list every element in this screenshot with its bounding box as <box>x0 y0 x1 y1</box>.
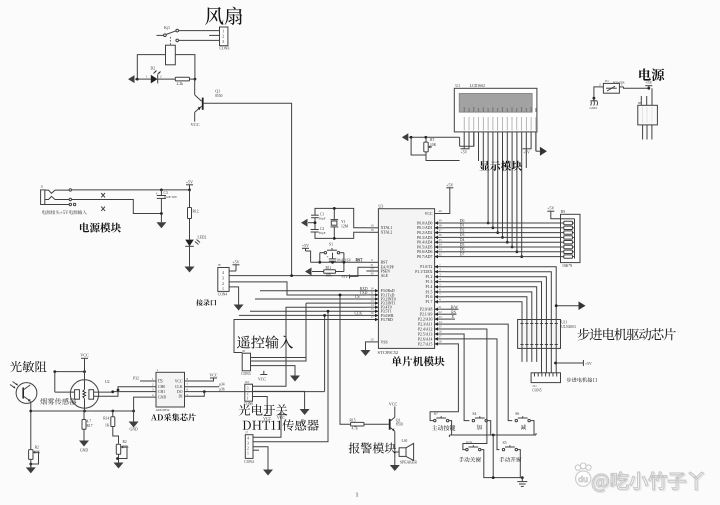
svg-text:LCD1602: LCD1602 <box>470 84 485 88</box>
ground under R17 <box>79 438 89 453</box>
label CON3 (remote) <box>241 372 251 376</box>
fuse P1 POWER <box>598 79 625 93</box>
svg-text:Q1: Q1 <box>215 89 220 94</box>
resistor R11 10K <box>324 266 336 278</box>
power label +5V (power module) <box>186 179 193 190</box>
svg-text:P1.1/T2EX: P1.1/T2EX <box>415 270 432 274</box>
svg-text:U3: U3 <box>378 203 383 208</box>
wire P2.4 to S10 <box>446 329 487 450</box>
wire sensor left pin <box>55 372 75 393</box>
svg-text:S5: S5 <box>503 441 507 445</box>
svg-text:1: 1 <box>247 396 249 400</box>
svg-text:P1.6: P1.6 <box>426 295 433 299</box>
module label 单片机模块 <box>392 356 445 366</box>
connector J6 remote <box>242 349 250 371</box>
net label RST <box>356 258 364 262</box>
power label +5V at reset <box>302 243 311 262</box>
connector CON3 (fan) <box>220 27 228 46</box>
wire LCD RS wire down <box>459 137 461 146</box>
label 10uF/16V RST <box>337 258 364 262</box>
phototransistor Q3 <box>10 382 37 404</box>
wire P3.0 RXD <box>260 290 366 292</box>
svg-text:3: 3 <box>247 386 249 390</box>
label J11 CON5 <box>532 384 542 392</box>
wire Q1 base to MCU <box>204 103 292 275</box>
svg-text:p36: p36 <box>219 387 225 391</box>
svg-text:P0.4/AD4: P0.4/AD4 <box>417 241 432 245</box>
svg-text:J11: J11 <box>532 384 537 388</box>
svg-text:P0.0/AD0: P0.0/AD0 <box>417 221 432 225</box>
svg-text:2: 2 <box>599 82 601 86</box>
svg-text:+5V: +5V <box>585 362 592 366</box>
relay coil K1 <box>166 45 176 65</box>
resistor R15 4.7k <box>350 418 365 430</box>
svg-text:GND: GND <box>80 449 88 453</box>
svg-text:DO: DO <box>177 390 183 394</box>
svg-text:P2.0/A8: P2.0/A8 <box>420 308 433 312</box>
diode D2 label <box>151 66 161 74</box>
svg-text:R/W: R/W <box>451 305 459 309</box>
svg-text:2.2k: 2.2k <box>177 82 184 86</box>
svg-text:P1.0/T2: P1.0/T2 <box>420 265 432 269</box>
power labels VCC VCC <box>263 411 285 421</box>
wire DHT11 pin4 to VCC <box>253 415 281 438</box>
svg-text:D1: D1 <box>460 224 465 228</box>
svg-text:37: 37 <box>438 228 442 232</box>
resistor pack R9 body <box>561 210 581 263</box>
label STC89C52 <box>378 350 399 355</box>
relay switch Kj1 label <box>164 25 170 30</box>
CON5 pin ticks <box>535 373 557 377</box>
wire J8 pin2 to MCU P3.1 <box>229 282 366 297</box>
wire RST row <box>311 261 367 264</box>
wire R12 to LED2 <box>189 219 191 240</box>
wire relay to CON3 pin1 <box>178 30 219 32</box>
connector J7 DHT11 <box>245 431 253 459</box>
svg-text:VCC: VCC <box>389 401 398 406</box>
resistor R17 4.7 <box>82 411 93 438</box>
svg-text:CON3: CON3 <box>220 47 230 51</box>
svg-text:3: 3 <box>247 442 249 446</box>
resistor R14 1K <box>103 411 115 428</box>
svg-text:4.7: 4.7 <box>87 420 92 424</box>
svg-text:CON3: CON3 <box>241 372 251 376</box>
svg-text:VCC: VCC <box>263 416 272 421</box>
svg-text:30pF: 30pF <box>319 231 326 235</box>
svg-text:28: 28 <box>438 340 442 344</box>
svg-text:4.7k: 4.7k <box>352 427 358 431</box>
svg-text:22: 22 <box>438 310 442 314</box>
capacitor C1 30pF <box>311 213 325 223</box>
svg-text:CS: CS <box>158 379 163 383</box>
power label +5V at EA <box>341 267 366 279</box>
ground (left arrow) at relay <box>128 75 137 83</box>
junction dot at photo wire <box>29 410 32 413</box>
power label VCC at Q1 emitter <box>191 122 200 127</box>
svg-text:17: 17 <box>370 315 374 319</box>
svg-text:P1.4: P1.4 <box>426 285 433 289</box>
svg-text:10uF/16V: 10uF/16V <box>164 195 178 199</box>
label CON4 (DHT11) <box>244 460 254 464</box>
driver chip U11 ULN2003 body <box>518 320 561 349</box>
ground (left) at R11 <box>305 268 324 276</box>
svg-text:20: 20 <box>370 338 374 342</box>
LCD pins short wires <box>464 132 536 169</box>
power label VCC under J6 <box>258 371 267 382</box>
svg-text:P2.2/A10: P2.2/A10 <box>418 318 433 322</box>
ULN2003 through pins <box>520 320 557 349</box>
power label +5V at J8 <box>229 259 240 271</box>
ADC pin names <box>158 379 183 399</box>
svg-text:10K: 10K <box>430 143 437 147</box>
svg-text:PSEN: PSEN <box>381 269 391 273</box>
svg-text:21: 21 <box>438 305 442 309</box>
svg-text:27: 27 <box>438 335 442 339</box>
svg-text:ADC0832: ADC0832 <box>156 408 170 412</box>
module label 报警模块 <box>349 443 396 454</box>
wire P0 data bus to resistor pack <box>446 223 561 257</box>
wire P3.2 CS <box>255 298 366 300</box>
ground under J6 wire <box>290 371 300 382</box>
svg-text:D5: D5 <box>460 243 465 247</box>
no-connect X marks <box>101 193 105 211</box>
wire Q2 emitter to speaker <box>395 431 399 458</box>
power jack J2 <box>41 185 76 206</box>
wire P2.5 to S4 <box>446 334 469 421</box>
label 手动开窗 <box>499 457 521 462</box>
svg-text:STC89C52: STC89C52 <box>378 350 399 355</box>
svg-text:U1: U1 <box>455 84 460 88</box>
svg-text:35: 35 <box>438 238 442 242</box>
capacitor C4 10uF/16V (reset) <box>327 253 337 263</box>
net labels RXD TXD CS CLK <box>355 287 368 316</box>
svg-text:RST: RST <box>381 261 389 265</box>
ground under alarm Q2 <box>390 458 400 471</box>
label 手动关窗 <box>458 457 480 462</box>
module label 步进电机驱动芯片 <box>578 328 676 340</box>
ground under ADC <box>129 418 139 432</box>
svg-text:D0: D0 <box>460 219 465 223</box>
capacitor C2 30pF <box>311 223 326 235</box>
wire P3.6 CLK to ADC <box>239 314 366 391</box>
wire LCD V0 to contrast pot <box>460 132 474 147</box>
power label +5V (top right) <box>645 80 652 88</box>
power +5V at LCD pin15 <box>523 149 532 155</box>
svg-text:+: + <box>327 255 329 259</box>
ground under J8 <box>234 301 244 311</box>
svg-text:P2.1/A9: P2.1/A9 <box>420 313 433 317</box>
wire P1 pin2 to GND <box>593 87 599 101</box>
svg-text:3: 3 <box>222 276 224 281</box>
module label 光敏阻 <box>10 361 47 372</box>
svg-text:D2: D2 <box>460 228 465 232</box>
wire DHT11 pin1 stub <box>253 449 259 451</box>
wire J6 pin2 to ground <box>251 366 296 371</box>
svg-text:D7: D7 <box>460 252 465 256</box>
ground under J10 wire <box>300 403 310 415</box>
diode D2 <box>137 75 175 84</box>
svg-text:P0.7/AD7: P0.7/AD7 <box>417 255 432 259</box>
wire sensor row <box>31 410 135 413</box>
transistor Q1 labels <box>215 89 222 98</box>
svg-text:32: 32 <box>438 252 442 256</box>
svg-text:U11: U11 <box>561 321 567 325</box>
resistor R (2.2k) <box>175 77 189 86</box>
wire crystal loop <box>315 207 366 240</box>
svg-text:S10: S10 <box>466 441 472 445</box>
svg-text:34: 34 <box>438 243 442 247</box>
svg-text:ULN2003: ULN2003 <box>561 325 576 329</box>
svg-text:VCC: VCC <box>209 372 218 377</box>
MCU left pins XTAL1 XTAL2 RST EA PSEN ALE P3.0-P3.7 VSS <box>366 224 395 345</box>
wire DHT11 pin2 to ground <box>253 447 268 461</box>
svg-text:CON4: CON4 <box>218 292 228 296</box>
svg-text:23: 23 <box>438 315 442 319</box>
svg-text:25: 25 <box>438 325 442 329</box>
module label 烟雾传感器 <box>40 398 76 405</box>
wire phototransistor collector rail <box>53 370 86 373</box>
svg-text:P0.2/AD2: P0.2/AD2 <box>417 231 432 235</box>
svg-text:R15: R15 <box>350 418 356 422</box>
svg-text:CH1: CH1 <box>158 390 165 394</box>
svg-text:P0.1/AD1: P0.1/AD1 <box>417 226 432 230</box>
regulator leads <box>641 88 652 139</box>
svg-text:GND: GND <box>590 106 598 110</box>
wire sensor right pins to ADC <box>94 387 156 397</box>
connector J10 photoelectric <box>245 380 253 401</box>
svg-text:1: 1 <box>247 452 249 456</box>
ground under DHT11 <box>263 461 273 476</box>
svg-text:18: 18 <box>370 228 374 232</box>
ground under C3 <box>156 212 166 228</box>
junction dot +5V rail <box>188 189 191 192</box>
resistor pack R9 resistors 10K*8 <box>561 219 575 259</box>
wire phototransistor emitter down <box>30 401 32 449</box>
crystal Y1 12M <box>331 220 349 229</box>
LCD pin name ticks <box>464 107 536 131</box>
power label VCC at alarm <box>389 401 398 417</box>
module label 光电开关 <box>239 404 288 415</box>
svg-text:R12: R12 <box>193 210 199 214</box>
svg-text:VSS: VSS <box>381 340 388 344</box>
wire P1.0-P1.7 to ULN2003 inputs <box>446 267 556 320</box>
svg-text:40: 40 <box>438 209 442 213</box>
svg-text:R2: R2 <box>123 440 127 444</box>
watermark text @吃小竹子丫 <box>592 472 704 493</box>
wire P2.3 to S6 <box>446 324 512 421</box>
svg-text:4: 4 <box>222 270 224 275</box>
label U2 <box>105 380 110 384</box>
svg-text:R14: R14 <box>103 416 109 420</box>
smoke sensor MQ2 <box>70 380 98 411</box>
LCD screen <box>459 94 532 113</box>
svg-text:LED2: LED2 <box>198 236 207 240</box>
svg-text:Y1: Y1 <box>341 220 346 224</box>
svg-text:1: 1 <box>355 492 358 499</box>
svg-text:33: 33 <box>438 248 442 252</box>
wire jack to +5V rail <box>72 189 190 191</box>
wire ADC DO to P3.6 <box>185 387 325 393</box>
svg-text:R9: R9 <box>561 210 565 214</box>
svg-text:U2: U2 <box>105 380 110 384</box>
svg-text:4: 4 <box>247 437 249 441</box>
ground under LED2 <box>185 265 195 272</box>
svg-text:3: 3 <box>222 39 224 44</box>
svg-text:+5V: +5V <box>461 151 468 155</box>
svg-text:+5V: +5V <box>547 206 554 211</box>
module label 电源模块 <box>80 223 121 233</box>
wire CON3 pin2 stub <box>209 34 219 36</box>
trimmer R2 (ADC) <box>113 427 129 461</box>
wire J10 pin2 to ground <box>253 391 305 403</box>
switch S6 <box>515 412 530 422</box>
relay switch Kj1 contacts <box>157 29 179 45</box>
wire P3.3 to J10 connector <box>251 303 367 361</box>
svg-text:1: 1 <box>621 82 623 86</box>
svg-text:1K: 1K <box>105 424 110 428</box>
module label DHT11传感器 <box>243 419 319 431</box>
svg-text:P0.3/AD3: P0.3/AD3 <box>417 236 432 240</box>
wire pot bottom <box>421 152 460 161</box>
wires ULN outputs <box>522 348 556 372</box>
connector J8 接录口 <box>218 263 229 291</box>
svg-text:P2.7/A15: P2.7/A15 <box>418 342 433 346</box>
svg-text:30: 30 <box>370 271 374 275</box>
wire ULN COM to arrow <box>555 301 586 310</box>
svg-text:P2.5/A13: P2.5/A13 <box>418 332 433 336</box>
svg-text:12M: 12M <box>341 225 349 229</box>
label ADC0832 <box>156 408 170 412</box>
svg-text:19: 19 <box>370 224 374 228</box>
svg-text:CLK: CLK <box>175 385 183 389</box>
module label 显示模块 <box>479 161 522 171</box>
wire R15 to Q2 base <box>364 423 389 425</box>
wire P3.1 to alarm <box>339 294 351 425</box>
ground under R2 (ADC) <box>114 459 124 469</box>
module label AD采集芯片 <box>151 413 196 421</box>
regulator U5 body <box>638 101 658 125</box>
wire DHT11 data to P3.5 <box>253 310 329 442</box>
switch S10 <box>466 441 481 451</box>
svg-text:S4: S4 <box>472 412 476 416</box>
capacitor C3 10uF/16V <box>156 190 178 214</box>
watermark paw icon <box>575 463 591 486</box>
switch S1 (reset) <box>320 243 344 263</box>
wire J6 pin to P3 bundle <box>251 357 307 359</box>
svg-text:P2.3/A11: P2.3/A11 <box>418 323 432 327</box>
wire pot top rail <box>409 136 460 139</box>
svg-text:P0.6/AD6: P0.6/AD6 <box>417 250 432 254</box>
wire P3.7 to remote <box>234 320 366 353</box>
svg-text:+5V: +5V <box>341 274 348 279</box>
ground (left) at crystal caps <box>301 219 316 227</box>
svg-text:p34: p34 <box>219 383 225 387</box>
svg-text:ALE: ALE <box>381 274 389 278</box>
ground at MCU VSS <box>361 342 371 356</box>
svg-text:10K*8: 10K*8 <box>562 264 572 268</box>
label CON3 <box>220 47 230 51</box>
svg-text:2: 2 <box>247 447 249 451</box>
wire ADC CLK net p34 <box>185 383 225 387</box>
LED LED2 <box>185 236 206 266</box>
label 主动按键 <box>432 425 456 431</box>
net labels D0-D7 <box>460 219 465 257</box>
module label 步进电机接口 <box>567 377 597 382</box>
svg-text:10uF/16V: 10uF/16V <box>337 258 352 262</box>
wire 2.2k to junction <box>190 78 195 80</box>
wire jack pin2 to ground rail <box>72 200 162 214</box>
svg-text:VCC: VCC <box>191 122 200 127</box>
wire R11 to RST <box>336 262 344 271</box>
svg-text:S6: S6 <box>515 412 519 416</box>
sheet number 1 <box>355 492 358 499</box>
svg-text:R2: R2 <box>35 446 39 450</box>
svg-text:5B: 5B <box>638 101 642 105</box>
wire button common bus <box>449 421 536 437</box>
svg-text:XTAL1: XTAL1 <box>381 226 393 230</box>
svg-text:D2: D2 <box>151 66 156 70</box>
label 10K*8 <box>562 264 572 268</box>
svg-text:P1.5: P1.5 <box>426 290 433 294</box>
svg-text:D6: D6 <box>460 248 465 252</box>
svg-text:VCC: VCC <box>258 376 267 381</box>
svg-text:VCC: VCC <box>175 379 183 383</box>
ground (right arrow) at LCD pin16 <box>536 132 547 156</box>
transistor Q1 8550 <box>195 79 203 122</box>
trimmer R2 (photo) <box>29 446 41 468</box>
label CON4 (record port) <box>218 292 228 296</box>
wire P3.4 to photoelectric J10 <box>253 307 367 386</box>
svg-text:P1.3: P1.3 <box>426 280 433 284</box>
MCU chip U3 STC89C52 body <box>378 203 434 348</box>
svg-text:P32: P32 <box>133 377 139 381</box>
ground under R2 (photo) <box>26 464 36 473</box>
svg-text:P1.2: P1.2 <box>426 275 433 279</box>
ground (bars) at buttons <box>517 482 527 487</box>
svg-text:24: 24 <box>438 320 442 324</box>
wire ADC DI <box>185 392 205 397</box>
svg-text:Kj1: Kj1 <box>164 25 170 30</box>
svg-text:39: 39 <box>438 219 442 223</box>
svg-text:CH0: CH0 <box>158 385 165 389</box>
svg-text:P1.7: P1.7 <box>426 300 433 304</box>
svg-text:R17: R17 <box>87 424 93 428</box>
power +5V at LCD pins 1-2 <box>461 149 470 155</box>
wire P2.7 to S7 <box>430 344 458 421</box>
module label 遥控输入 <box>237 335 293 348</box>
switch S4 <box>472 412 487 422</box>
svg-text:P0.5/AD5: P0.5/AD5 <box>417 245 432 249</box>
wire J8 pin1 to ground <box>229 287 239 301</box>
svg-text:+5V: +5V <box>186 179 193 184</box>
fan module title 风扇 <box>205 7 242 25</box>
wire relay coil left loop <box>137 55 165 80</box>
junction dot at C3 <box>160 189 163 192</box>
svg-text:CON6: CON6 <box>244 402 254 406</box>
power +5V to MCU VCC pin40 <box>446 182 453 213</box>
trimmer RT 10K <box>411 137 436 155</box>
svg-text:8550: 8550 <box>396 423 403 427</box>
resistor R12 <box>188 208 199 219</box>
module label 电源 <box>639 68 664 81</box>
wire P1 to +5V <box>624 87 651 90</box>
svg-text:+5V: +5V <box>645 80 652 85</box>
wire relay coil right loop <box>175 55 195 80</box>
wire ADC CS with net P32 <box>133 377 156 397</box>
wire S10 S5 to ground <box>481 435 524 482</box>
power VCC at ADC <box>185 372 218 397</box>
svg-text:8550: 8550 <box>215 94 222 98</box>
